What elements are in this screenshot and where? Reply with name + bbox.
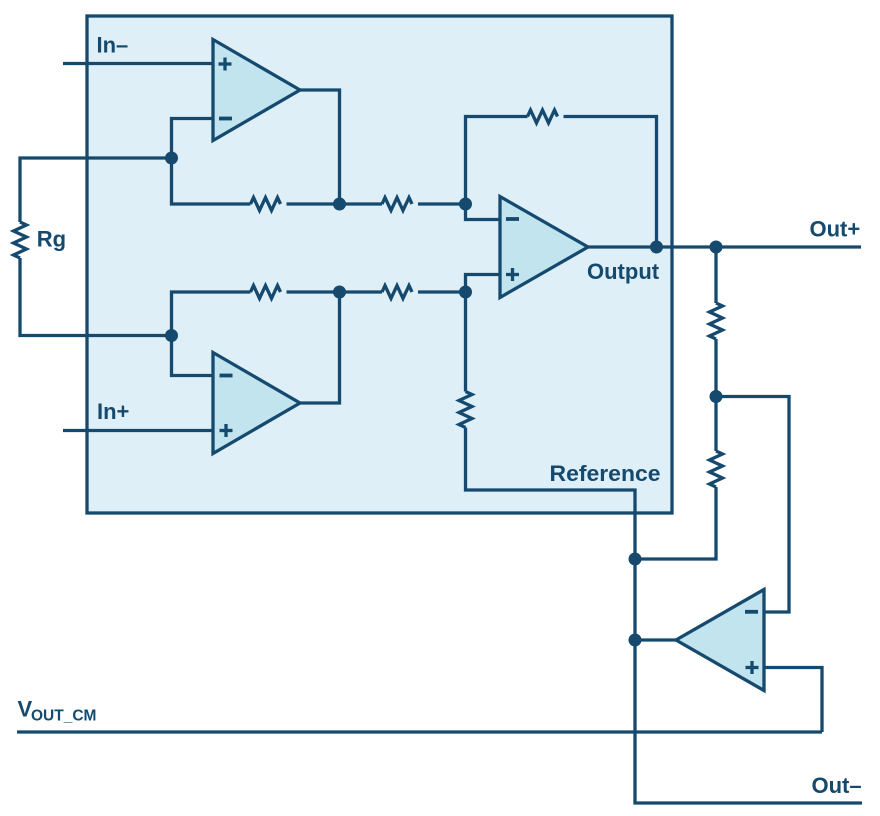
wire: stub to A3 inverting input xyxy=(466,204,501,220)
svg-text:Reference: Reference xyxy=(550,461,661,486)
resistor R4 (row2 right) xyxy=(382,286,412,299)
resistor R2 (row1 right) xyxy=(382,198,412,211)
wire: Out- net vertical and Out- line xyxy=(635,559,862,803)
svg-text:Out–: Out– xyxy=(812,773,862,798)
wire: feedback loop up and over A3 xyxy=(466,117,528,205)
wire: V_OUT_CM line xyxy=(17,730,822,733)
wire: row1 left segment xyxy=(172,158,251,204)
pin label: A2 + input xyxy=(220,424,233,437)
resistor R5 (A3 feedback) xyxy=(528,110,558,123)
junction: A2 inverting node xyxy=(165,329,178,342)
op-amp A1 (top input buffer) xyxy=(213,40,300,141)
wire: In- input stub to A1 + input xyxy=(63,62,213,65)
in-amp body boundary box xyxy=(87,16,672,513)
wire: In+ input stub to A2 + input xyxy=(63,429,213,432)
junction: reference net node xyxy=(629,553,642,566)
wire: node down to R6 xyxy=(464,292,467,392)
wire: row1 to node at A3 minus branch xyxy=(418,202,466,205)
svg-text:In–: In– xyxy=(97,33,129,58)
wire: row1 mid segment xyxy=(287,202,383,205)
pin label: A4 - input xyxy=(745,610,758,614)
resistor R1 (row1 left) xyxy=(251,198,281,211)
wire: stub to A3 non-inverting input xyxy=(466,275,501,293)
wire: row2 left segment xyxy=(172,292,251,336)
pin label: A3 + input xyxy=(506,268,519,281)
wire: row2 to node at A3 plus branch xyxy=(418,290,466,293)
wire: Out+ line from A3 output xyxy=(588,245,861,248)
wire: A4 output stub xyxy=(635,638,676,641)
wire: divider bottom to reference node xyxy=(635,487,716,559)
junction: divider midpoint node xyxy=(710,390,723,403)
resistor R8 (divider lower) xyxy=(710,451,723,487)
svg-text:Rg: Rg xyxy=(37,227,66,252)
wire: A1 inverting input jog xyxy=(172,119,214,159)
wire: A4 non-inverting input from Vout_cm xyxy=(764,668,822,733)
wire: divider middle segment xyxy=(714,339,717,451)
op-amp A2 (bottom input buffer) xyxy=(213,353,300,454)
op-amp A4 (reference drive amplifier) xyxy=(676,590,764,691)
wire: feedback loop down to output node xyxy=(564,117,657,248)
wire: Rg bottom loop (Rg to node) xyxy=(20,258,172,336)
svg-text:OUT_CM: OUT_CM xyxy=(31,708,96,725)
wire: Rg top loop (node to Rg) xyxy=(20,158,172,222)
junction: A4 output node xyxy=(629,634,642,647)
junction: A3 non-inverting branch node xyxy=(459,286,472,299)
pin label: A4 + input xyxy=(746,661,759,674)
wire: A2 output up to second row xyxy=(300,292,340,403)
svg-text:In+: In+ xyxy=(97,399,129,424)
wire: A2 inverting input jog xyxy=(172,336,214,376)
junction: A3 output feedback node xyxy=(650,241,663,254)
wire: row2 mid segment xyxy=(287,290,383,293)
junction: A1 inverting node xyxy=(165,152,178,165)
wire: divider top segment from Out+ node xyxy=(714,247,717,303)
junction: A3 inverting branch node xyxy=(459,198,472,211)
junction: A1 output / row1 node xyxy=(333,198,346,211)
pin label: A1 - input xyxy=(219,117,232,121)
pin label: A3 - input xyxy=(506,217,519,221)
svg-text:Output: Output xyxy=(587,259,660,284)
resistor R7 (divider upper) xyxy=(710,303,723,339)
junction: A2 output / row2 node xyxy=(333,286,346,299)
pin label: A2 - input xyxy=(220,374,233,378)
resistor R3 (row2 left) xyxy=(251,286,281,299)
junction: Out+ divider tap node xyxy=(710,241,723,254)
svg-text:Out+: Out+ xyxy=(810,217,861,242)
resistor Rg xyxy=(14,222,27,258)
wire: A4 feedback from divider midpoint to A4 inverting input xyxy=(716,397,789,613)
op-amp A3 (difference output amplifier) xyxy=(500,197,588,298)
pin label: A1 + input xyxy=(219,58,232,71)
wire: A1 output down to first row xyxy=(300,90,340,204)
wire: reference pin routing out of box xyxy=(466,428,636,560)
resistor R6 (below A3 to reference) xyxy=(459,392,472,428)
